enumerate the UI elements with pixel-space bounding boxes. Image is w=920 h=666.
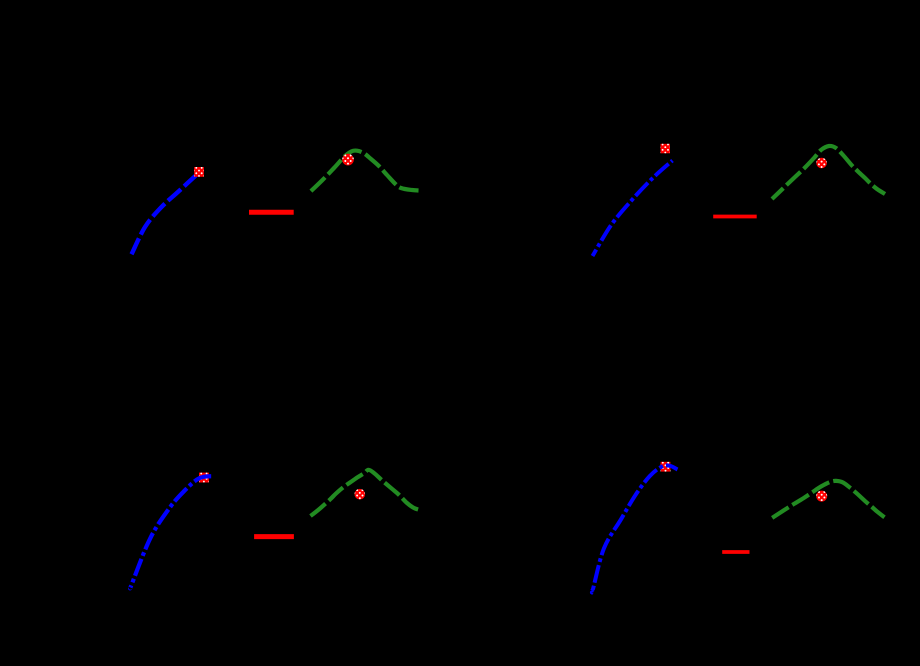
panel 2 red circle marker below barrier top: [815, 158, 828, 169]
panel 1 red circle marker near barrier top: [342, 154, 355, 166]
panel 3 green dashed barrier curve: [311, 470, 422, 516]
panel 3 red energy-level segment: [254, 534, 294, 539]
panel 4 red energy-level segment: [722, 550, 749, 554]
panel 1 red energy-level segment: [249, 210, 294, 215]
panel 3 red square marker under blue curve top: [198, 473, 211, 483]
panel 4 red circle marker below barrier top: [815, 491, 828, 502]
panel 2 red square marker above blue curve end: [659, 144, 672, 154]
panel 2 blue dash-dot reactant-side curve: [593, 161, 673, 257]
panel 1 green dashed barrier curve: [310, 150, 422, 192]
panel 3 red circle marker inside barrier: [353, 489, 366, 500]
panel 1 red square marker at blue curve end: [193, 167, 206, 177]
panel 1 blue dashed reactant-side curve: [132, 172, 200, 254]
panel 2 red energy-level segment: [713, 215, 757, 219]
panel 4 green dashed barrier curve: [772, 481, 885, 518]
panel 3 blue dash-dot reactant-side curve: [130, 476, 213, 588]
panel 4 blue dash-dot reactant-side curve: [592, 465, 678, 592]
panel 4 red square marker at blue curve top: [659, 462, 672, 472]
panel 2 green dashed barrier curve: [772, 146, 885, 199]
